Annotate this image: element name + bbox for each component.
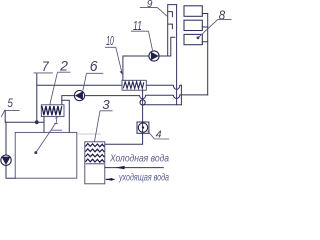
label 1 with shelf, leader and dot xyxy=(34,115,62,154)
svg-text:3: 3 xyxy=(102,98,109,112)
wire: standpipe from manifold right edge down to bottom line xyxy=(176,5,178,105)
label 11 with shelf and leader xyxy=(131,19,153,51)
pump 11 (circle with right-pointing triangle) xyxy=(149,51,159,61)
label 10 with shelf and leader arrow xyxy=(105,33,123,75)
wire: HX2 bottom drop into tank 1 xyxy=(43,117,45,133)
label 3 with shelf and leader xyxy=(95,98,113,141)
tank 3 coil (serpentine) xyxy=(85,144,104,163)
label 6 with shelf and leader xyxy=(83,59,103,90)
wire: manifold internal hook 2 xyxy=(168,24,172,29)
tank 1 (feed water tank) xyxy=(15,132,77,178)
pump 6 (circle with left-pointing triangle) xyxy=(74,91,84,101)
label 4 with shelf and leader xyxy=(148,129,170,141)
radiator 8b xyxy=(184,20,202,30)
wire: HX10 outlet line y=85 with hop over standpipe, drop to lower line xyxy=(146,85,181,89)
svg-text:уходящая вода: уходящая вода xyxy=(118,173,169,184)
tank 3 coil bottom line xyxy=(86,163,104,165)
wire: radiator stubs to bus xyxy=(202,14,207,42)
svg-text:10: 10 xyxy=(106,33,114,48)
wire: drop from HX10 bottom through small circle to component 4 and tank 3 xyxy=(105,90,143,144)
wire: pump 6 suction from HX2 top xyxy=(62,96,75,105)
wire: upper header y=85 from bracket to HX10 left side xyxy=(37,84,122,86)
wire: faint line from tank 1 corner towards tank 3 xyxy=(77,133,101,135)
pump (bottom left, down-pointing triangle) xyxy=(1,155,11,165)
heat exchanger 10 (rect) xyxy=(122,80,146,90)
arrow: cold water flow arrow xyxy=(115,166,125,169)
heat exchanger 10 coil zigzag xyxy=(123,82,144,89)
svg-text:8: 8 xyxy=(219,8,226,23)
wire: manifold top and left edge xyxy=(168,5,177,56)
heat exchanger 2 coil zigzag xyxy=(42,106,62,115)
wire: bottom line y=104.8 from small circle to x=181.4 xyxy=(143,104,182,106)
label 9 with shelf and leader xyxy=(140,0,168,16)
svg-text:2: 2 xyxy=(59,58,68,74)
label 5 with shelf xyxy=(1,96,19,117)
label 8 with shelf, leader and dot xyxy=(197,8,232,40)
wire: bottom-left pump column xyxy=(6,122,15,178)
svg-text:5: 5 xyxy=(7,96,13,110)
node: junction dot on bottom header xyxy=(35,120,39,124)
radiator 8c xyxy=(184,34,202,44)
wire: vertical from junction up to upper header and label-7 bracket xyxy=(36,73,38,122)
svg-text:6: 6 xyxy=(90,59,99,75)
wire: pump 6 discharge long line with crossing hops xyxy=(85,95,208,99)
svg-text:9: 9 xyxy=(147,0,153,10)
svg-text:7: 7 xyxy=(42,58,50,74)
tank 3 (hot water tank) xyxy=(85,142,105,184)
heat exchanger 2 (rect) xyxy=(41,105,64,117)
wire: cold water inlet line xyxy=(105,167,164,169)
wire: label-5 riser and bottom header to junction xyxy=(5,110,44,122)
component 4 (circle-in-square on cold water drop) xyxy=(137,122,149,133)
wire: vertical at x=181.4 joining upper line, lower line and bottom line xyxy=(180,85,182,105)
label 7 with shelf xyxy=(34,58,54,74)
wire: pump 11 discharge, riser into manifold with hook xyxy=(159,37,175,56)
arrow: outgoing water arrow xyxy=(106,178,115,181)
wire: pump 11 suction from drop pipe to HX10 xyxy=(123,56,149,80)
wire: manifold internal hook 1 xyxy=(168,12,172,17)
svg-text:Холодная вода: Холодная вода xyxy=(109,154,169,165)
wire: radiator return bus rising to radiators xyxy=(207,14,209,95)
label 2 with shelf and leader xyxy=(50,58,71,105)
wire: branch from pump-6 suction down into tank 1 xyxy=(62,100,70,132)
radiator 8a xyxy=(184,6,202,16)
node: small circle symbol below HX10 drop xyxy=(140,100,145,105)
